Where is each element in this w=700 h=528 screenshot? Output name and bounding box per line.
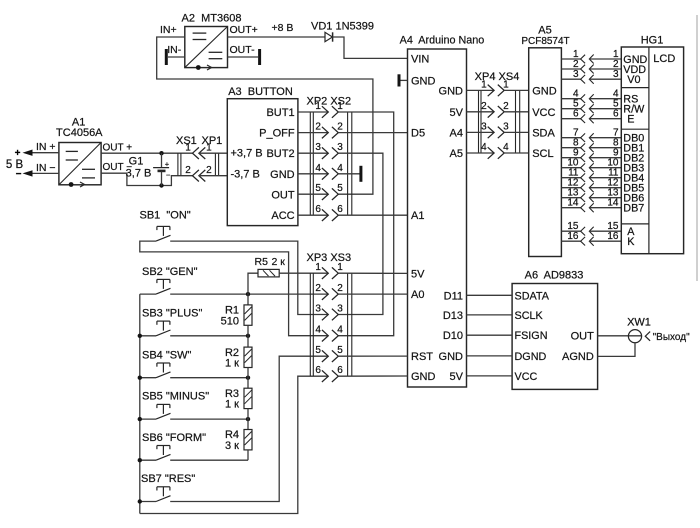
svg-text:6: 6: [315, 204, 321, 215]
ground XS2 pin4: [359, 166, 362, 182]
wire XS4 pin 1 to A5: [504, 89, 529, 91]
XP3 pin 1 arrow: [322, 267, 328, 279]
wire to HG1 pin 5: [589, 108, 621, 110]
wire A5 pin 4: [561, 98, 580, 100]
svg-text:3,7 В: 3,7 В: [126, 168, 152, 180]
svg-text:OUT: OUT: [571, 330, 595, 342]
A5 side socket pin 6: [581, 114, 586, 123]
XP4 pin 4 arrow: [488, 147, 494, 159]
generator A6 AD9833: [512, 269, 598, 389]
svg-text:SCL: SCL: [532, 148, 553, 160]
svg-text:5 В: 5 В: [6, 159, 24, 171]
wire A5 pin 5: [561, 108, 580, 110]
wire A5 pin 16: [561, 240, 580, 242]
wire A6 OUT to XW1: [598, 335, 642, 337]
svg-text:4: 4: [481, 142, 487, 153]
svg-text:1: 1: [481, 79, 487, 90]
XP1 pin 1 arrow: [199, 147, 205, 159]
svg-text:2: 2: [315, 283, 321, 294]
svg-text:GND: GND: [411, 75, 436, 87]
svg-text:XP2 XS2: XP2 XS2: [307, 95, 352, 107]
XS4 pin 2 socket: [498, 106, 504, 118]
A5 side socket pin 9: [581, 153, 586, 162]
svg-text:FSIGN: FSIGN: [515, 330, 548, 342]
resistor R1 510: [221, 294, 252, 336]
wire bus to SB7: [140, 501, 156, 503]
connector XW1: [627, 317, 651, 343]
svg-text:1: 1: [337, 262, 343, 273]
A5 side socket pin 2: [581, 65, 586, 74]
svg-text:3: 3: [337, 142, 343, 153]
XP2 pin 1 arrow: [322, 106, 328, 118]
svg-text:IN-: IN-: [167, 44, 182, 56]
wire A3 pin to XP2 pin 3: [298, 152, 328, 154]
connector XP3 XS3: [307, 252, 352, 376]
wire bus bottom to XP3 pin6: [140, 376, 328, 513]
svg-text:3: 3: [315, 142, 321, 153]
svg-text:6: 6: [315, 365, 321, 376]
connector XP2 XS2: [307, 95, 352, 215]
svg-text:DGND: DGND: [515, 351, 547, 363]
XS2 pin 5 socket: [332, 188, 338, 200]
svg-text:1: 1: [315, 101, 321, 112]
wire bus to SB6: [140, 459, 156, 461]
svg-text:1: 1: [337, 101, 343, 112]
svg-text:5: 5: [315, 183, 321, 194]
wire bus to SB4: [140, 377, 156, 379]
svg-text:3: 3: [573, 69, 579, 80]
diode VD1 1N5399: [311, 21, 374, 42]
svg-text:4: 4: [503, 142, 509, 153]
A5 side socket pin 7: [581, 133, 586, 142]
wire XS2 pin4 to ground: [338, 173, 359, 175]
wire A6 AGND to XW1 shield: [598, 343, 635, 357]
HG1 side arrow pin 1: [589, 55, 593, 64]
svg-text:A2 MT3608: A2 MT3608: [182, 12, 242, 24]
svg-text:LCD: LCD: [653, 53, 675, 65]
svg-text:OUT-: OUT-: [230, 44, 256, 56]
svg-text:ACC: ACC: [271, 210, 294, 222]
module A3 BUTTON: [227, 86, 298, 226]
HG1 side arrow pin 14: [589, 203, 593, 212]
wire XP1 pin1 to A3: [199, 152, 227, 154]
svg-text:5V: 5V: [411, 268, 425, 280]
wire A4 to XP4 pin 1: [467, 89, 495, 91]
svg-text:SB7 "RES": SB7 "RES": [141, 473, 195, 485]
button SB2 "GEN": [142, 266, 198, 294]
svg-text:OUT +: OUT +: [103, 143, 133, 154]
wire XS4 pin 3 to A5: [504, 131, 529, 133]
svg-text:3: 3: [503, 121, 509, 132]
node battery top junction: [159, 151, 163, 155]
XS3 pin 6 socket: [332, 370, 338, 382]
svg-text:P_OFF: P_OFF: [259, 128, 295, 140]
ground A2 IN-: [165, 49, 168, 65]
svg-text:16: 16: [607, 231, 619, 242]
button SB1 "ON": [140, 210, 191, 242]
wire SB7 right to XP3 pin5: [170, 356, 328, 501]
wire A5 pin 12: [561, 187, 580, 189]
svg-text:14: 14: [567, 198, 579, 209]
resistor R3 1k: [225, 378, 252, 419]
svg-text:3: 3: [315, 304, 321, 315]
wire SB4 to resistor chain: [170, 377, 248, 379]
svg-text:510: 510: [221, 315, 239, 327]
HG1 side arrow pin 16: [589, 237, 593, 246]
XS3 pin 3 socket: [332, 309, 338, 321]
svg-text:BUT2: BUT2: [266, 148, 294, 160]
svg-text:D5: D5: [411, 128, 425, 140]
svg-text:3: 3: [481, 121, 487, 132]
svg-text:6: 6: [337, 204, 343, 215]
svg-text:14: 14: [607, 198, 619, 209]
HG1 side arrow pin 12: [589, 183, 593, 192]
A5 side socket pin 5: [581, 104, 586, 113]
XS2 pin 2 socket: [332, 127, 338, 139]
svg-text:IN +: IN +: [36, 141, 56, 153]
wire A5 pin 7: [561, 137, 580, 139]
XS1 pin 1 socket: [193, 147, 199, 159]
wire to HG1 pin 6: [589, 118, 621, 120]
HG1 side arrow pin 8: [589, 143, 593, 152]
wire VD1 to A4 VIN: [333, 37, 408, 58]
svg-text:OUT: OUT: [271, 189, 295, 201]
node battery bottom junction: [159, 183, 163, 187]
A5 side socket pin 14: [581, 203, 586, 212]
wire A2 OUT+ to VD1: [228, 36, 326, 38]
svg-text:3: 3: [613, 69, 619, 80]
wire A5 pin 10: [561, 167, 580, 169]
wire A3 pin to XP2 pin 5: [298, 193, 328, 195]
svg-text:VIN: VIN: [411, 53, 429, 65]
XP4 pin 2 arrow: [488, 106, 494, 118]
wire to HG1 pin 4: [589, 98, 621, 100]
ground A2 OUT-: [258, 49, 261, 65]
svg-text:4: 4: [337, 325, 343, 336]
svg-text:SB6 "FORM": SB6 "FORM": [142, 432, 206, 444]
svg-text:A1: A1: [411, 210, 424, 222]
XS3 pin 2 socket: [332, 288, 338, 300]
wire A4 to XP4 pin 3: [467, 131, 495, 133]
svg-text:GND: GND: [532, 85, 557, 97]
wire to HG1 pin 13: [589, 197, 621, 199]
node R3/R4 junction: [246, 417, 250, 421]
XP2 pin 5 arrow: [322, 188, 328, 200]
wire to HG1 pin 9: [589, 157, 621, 159]
wire A5 pin 15: [561, 230, 580, 232]
svg-text:5: 5: [315, 345, 321, 356]
svg-text:BUT1: BUT1: [266, 107, 294, 119]
wire SB3 to resistor chain: [170, 335, 248, 337]
display HG1 LCD: [621, 35, 683, 254]
svg-text:1: 1: [185, 143, 191, 154]
svg-text:2: 2: [503, 101, 509, 112]
resistor R4 3k: [225, 419, 252, 460]
svg-text:+8 В: +8 В: [272, 22, 294, 34]
svg-text:6: 6: [573, 109, 579, 120]
XW1 socket: [645, 332, 650, 341]
A5 side socket pin 10: [581, 163, 586, 172]
XP2 pin 6 arrow: [322, 209, 328, 221]
svg-text:SB2 "GEN": SB2 "GEN": [142, 266, 198, 278]
A5 side socket pin 16: [581, 237, 586, 246]
resistor R2 1k: [225, 336, 252, 378]
svg-text:XW1: XW1: [627, 317, 651, 329]
node 5V input +: [15, 148, 59, 159]
svg-text:AGND: AGND: [562, 351, 594, 363]
wire A2 IN+ from button OUT: [157, 37, 373, 194]
XS2 pin 4 socket: [332, 168, 338, 180]
svg-text:1: 1: [315, 262, 321, 273]
connector XP4 XS4: [475, 71, 520, 153]
wire to HG1 pin 11: [589, 177, 621, 179]
resistor R5 2k: [248, 256, 328, 294]
svg-text:R5: R5: [255, 256, 269, 268]
svg-text:GND: GND: [439, 85, 464, 97]
wire button common bus: [139, 294, 141, 513]
svg-text:16: 16: [567, 231, 579, 242]
node R2/R3 junction: [246, 376, 250, 380]
svg-text:4: 4: [337, 163, 343, 174]
wire to HG1 pin 15: [589, 230, 621, 232]
svg-text:−: −: [166, 171, 171, 180]
XS4 pin 3 socket: [498, 127, 504, 139]
XP4 pin 3 arrow: [488, 127, 494, 139]
button SB7 "RES": [141, 473, 195, 502]
XS2 pin 3 socket: [332, 147, 338, 159]
svg-text:2: 2: [185, 165, 191, 176]
XS4 pin 4 socket: [498, 147, 504, 159]
wire A4 to A6 VCC: [467, 375, 513, 377]
wire bus to SB3: [140, 335, 156, 337]
A5 side socket pin 1: [581, 55, 586, 64]
svg-text:2: 2: [315, 122, 321, 133]
wire bus to SB5: [140, 418, 156, 420]
wire A2 OUT- to ground: [228, 56, 259, 58]
svg-text:4: 4: [315, 325, 321, 336]
svg-text:VCC: VCC: [515, 371, 538, 383]
node bus junction: [138, 334, 142, 338]
svg-text:SCLK: SCLK: [515, 310, 544, 322]
XP3 pin 5 arrow: [322, 350, 328, 362]
wire SB6 to R4 bottom: [170, 459, 248, 461]
svg-text:5V: 5V: [450, 371, 464, 383]
wire SB1 right to XP3 pin3: [170, 241, 328, 314]
svg-text:D13: D13: [443, 310, 463, 322]
svg-text:+3,7 В: +3,7 В: [231, 148, 263, 160]
svg-text:A4: A4: [450, 127, 463, 139]
wire A3 pin to XP2 pin 6: [298, 214, 328, 216]
node bus junction: [138, 376, 142, 380]
node R1 top junction: [246, 292, 250, 296]
wire XS2 pin6 ACC to A4 A1: [338, 214, 407, 216]
svg-text:A5: A5: [538, 25, 551, 37]
wire A3 pin to XP2 pin 1: [298, 111, 328, 113]
button SB3 "PLUS": [142, 308, 202, 336]
HG1 side arrow pin 2: [589, 65, 593, 74]
svg-text:A4 Arduino Nano: A4 Arduino Nano: [400, 35, 485, 47]
button SB5 "MINUS": [142, 391, 209, 419]
XP3 pin 3 arrow: [322, 309, 328, 321]
svg-text:PCF8574T: PCF8574T: [521, 36, 569, 47]
XS3 pin 5 socket: [332, 350, 338, 362]
wire XS4 pin 2 to A5: [504, 111, 529, 113]
XS2 pin 1 socket: [332, 106, 338, 118]
wire XS2 pin3 BUT2 down to XS3 pin3: [338, 153, 383, 314]
node 5V input -: [16, 169, 59, 180]
wire A5 pin 11: [561, 177, 580, 179]
A5 side socket pin 4: [581, 94, 586, 103]
wire XS3 pin5 to A4 RST: [338, 355, 407, 357]
wire A5 pin 2: [561, 68, 580, 70]
svg-text:XP1: XP1: [202, 135, 223, 147]
svg-text:2: 2: [481, 101, 487, 112]
HG1 side arrow pin 3: [589, 75, 593, 84]
wire A3 pin to XP2 pin 2: [298, 132, 328, 134]
wire A5 pin 3: [561, 78, 580, 80]
converter A2 MT3608: [160, 12, 258, 70]
wire A4 to XP4 pin 4: [467, 152, 495, 154]
battery G1 3,7 V: [126, 153, 171, 185]
wire XP1 pin2 to A3: [199, 175, 227, 177]
svg-text:DB7: DB7: [623, 203, 644, 215]
svg-text:6: 6: [613, 109, 619, 120]
XP4 pin 1 arrow: [488, 85, 494, 97]
svg-text:2: 2: [206, 165, 212, 176]
svg-text:SB4 "SW": SB4 "SW": [142, 349, 191, 361]
svg-text:HG1: HG1: [641, 35, 664, 47]
wire to HG1 pin 16: [589, 240, 621, 242]
wire A5 pin 8: [561, 147, 580, 149]
wire A5 pin 14: [561, 207, 580, 209]
HG1 side arrow pin 15: [589, 227, 593, 236]
mcu A4 Arduino Nano: [400, 35, 485, 388]
connector XS1 XP1: [176, 135, 222, 176]
XP1 pin 2 arrow: [199, 170, 205, 182]
svg-text:K: K: [627, 236, 635, 248]
XS1 pin 2 socket: [193, 170, 199, 182]
wire to HG1 pin 3: [589, 78, 621, 80]
XP2 pin 2 arrow: [322, 127, 328, 139]
wire to HG1 pin 1: [589, 58, 621, 60]
svg-text:V0: V0: [627, 74, 640, 86]
wire to HG1 pin 12: [589, 187, 621, 189]
svg-text:OUT+: OUT+: [230, 24, 258, 36]
HG1 side arrow pin 7: [589, 133, 593, 142]
svg-text:2: 2: [337, 283, 343, 294]
svg-text:5: 5: [337, 183, 343, 194]
wire A5 pin 13: [561, 197, 580, 199]
XS4 pin 1 socket: [498, 85, 504, 97]
wire A2 IN- to ground: [168, 56, 185, 58]
svg-text:D11: D11: [444, 290, 463, 302]
svg-text:TC4056A: TC4056A: [56, 127, 103, 139]
XP3 pin 2 arrow: [322, 288, 328, 300]
wire A4 to A6 DGND: [467, 355, 513, 357]
button SB6 "FORM": [142, 432, 206, 460]
wire XS3 pin6 to A4 GND: [338, 375, 407, 377]
wire to HG1 pin 7: [589, 137, 621, 139]
A5 side socket pin 11: [581, 173, 586, 182]
XP2 pin 4 arrow: [322, 168, 328, 180]
A5 side socket pin 13: [581, 193, 586, 202]
node bus junction: [138, 417, 142, 421]
XP3 pin 6 arrow: [322, 370, 328, 382]
svg-text:4: 4: [315, 163, 321, 174]
button SB4 "SW": [142, 349, 191, 377]
HG1 side arrow pin 11: [589, 173, 593, 182]
svg-text:A5: A5: [450, 148, 463, 160]
wire A4 to XP4 pin 2: [467, 111, 495, 113]
HG1 side arrow pin 4: [589, 94, 593, 103]
svg-text:GND: GND: [270, 169, 295, 181]
svg-text:2 к: 2 к: [272, 256, 286, 268]
wire SB2 to XP3 pin2: [170, 293, 328, 295]
A5 side socket pin 12: [581, 183, 586, 192]
XP2 pin 3 arrow: [322, 147, 328, 159]
wire XS2 pin2 P_OFF to A4 D5: [338, 132, 407, 134]
svg-text:G1: G1: [129, 155, 144, 167]
svg-text:D10: D10: [443, 330, 463, 342]
svg-text:1 к: 1 к: [225, 399, 239, 411]
svg-text:2: 2: [337, 122, 343, 133]
HG1 side arrow pin 9: [589, 153, 593, 162]
frame edge: [696, 15, 698, 281]
node bus junction: [138, 499, 142, 503]
wire XS3 pin1 to A4 5V: [338, 272, 407, 274]
wire A3 pin to XP2 pin 4: [298, 173, 328, 175]
wire XS3 pin2 to A4 A0: [338, 293, 407, 295]
wire A5 pin 6: [561, 118, 580, 120]
svg-text:IN −: IN −: [36, 162, 56, 174]
wire XS2 pin1 BUT1 down to XS3 pin4: [338, 112, 393, 336]
HG1 side arrow pin 6: [589, 114, 593, 123]
HG1 side arrow pin 13: [589, 193, 593, 202]
svg-text:5: 5: [337, 345, 343, 356]
A5 side socket pin 15: [581, 227, 586, 236]
svg-text:3: 3: [337, 304, 343, 315]
svg-text:SDA: SDA: [532, 127, 555, 139]
svg-text:+: +: [15, 148, 21, 159]
HG1 side arrow pin 5: [589, 104, 593, 113]
wire to HG1 pin 2: [589, 68, 621, 70]
wire A4 to A6 FSIGN: [467, 334, 513, 336]
svg-text:VD1 1N5399: VD1 1N5399: [311, 21, 374, 33]
wire SB5 to resistor chain: [170, 418, 248, 420]
node R1/R2 junction: [246, 334, 250, 338]
svg-text:A6 AD9833: A6 AD9833: [525, 269, 584, 281]
svg-text:1: 1: [503, 79, 509, 90]
svg-text:RST: RST: [411, 351, 433, 363]
wire A4 to A6 SDATA: [467, 294, 513, 296]
svg-text:1: 1: [206, 143, 212, 154]
svg-text:+: +: [165, 159, 170, 168]
svg-text:SB1 "ON": SB1 "ON": [140, 210, 191, 222]
wire A4 GND to ground: [400, 79, 407, 81]
XS3 pin 4 socket: [332, 330, 338, 342]
XP3 pin 4 arrow: [322, 330, 328, 342]
svg-text:1 к: 1 к: [225, 358, 239, 370]
svg-text:SB5 "MINUS": SB5 "MINUS": [142, 391, 209, 403]
wire bus to SB2: [140, 293, 156, 295]
XS3 pin 1 socket: [332, 267, 338, 279]
wire A1 OUT+ to XS1: [101, 152, 192, 154]
svg-text:IN+: IN+: [160, 24, 177, 36]
node bus junction: [138, 458, 142, 462]
svg-text:XP3 XS3: XP3 XS3: [307, 252, 352, 264]
svg-text:SDATA: SDATA: [515, 290, 550, 302]
wire A4 to A6 SCLK: [467, 314, 513, 316]
